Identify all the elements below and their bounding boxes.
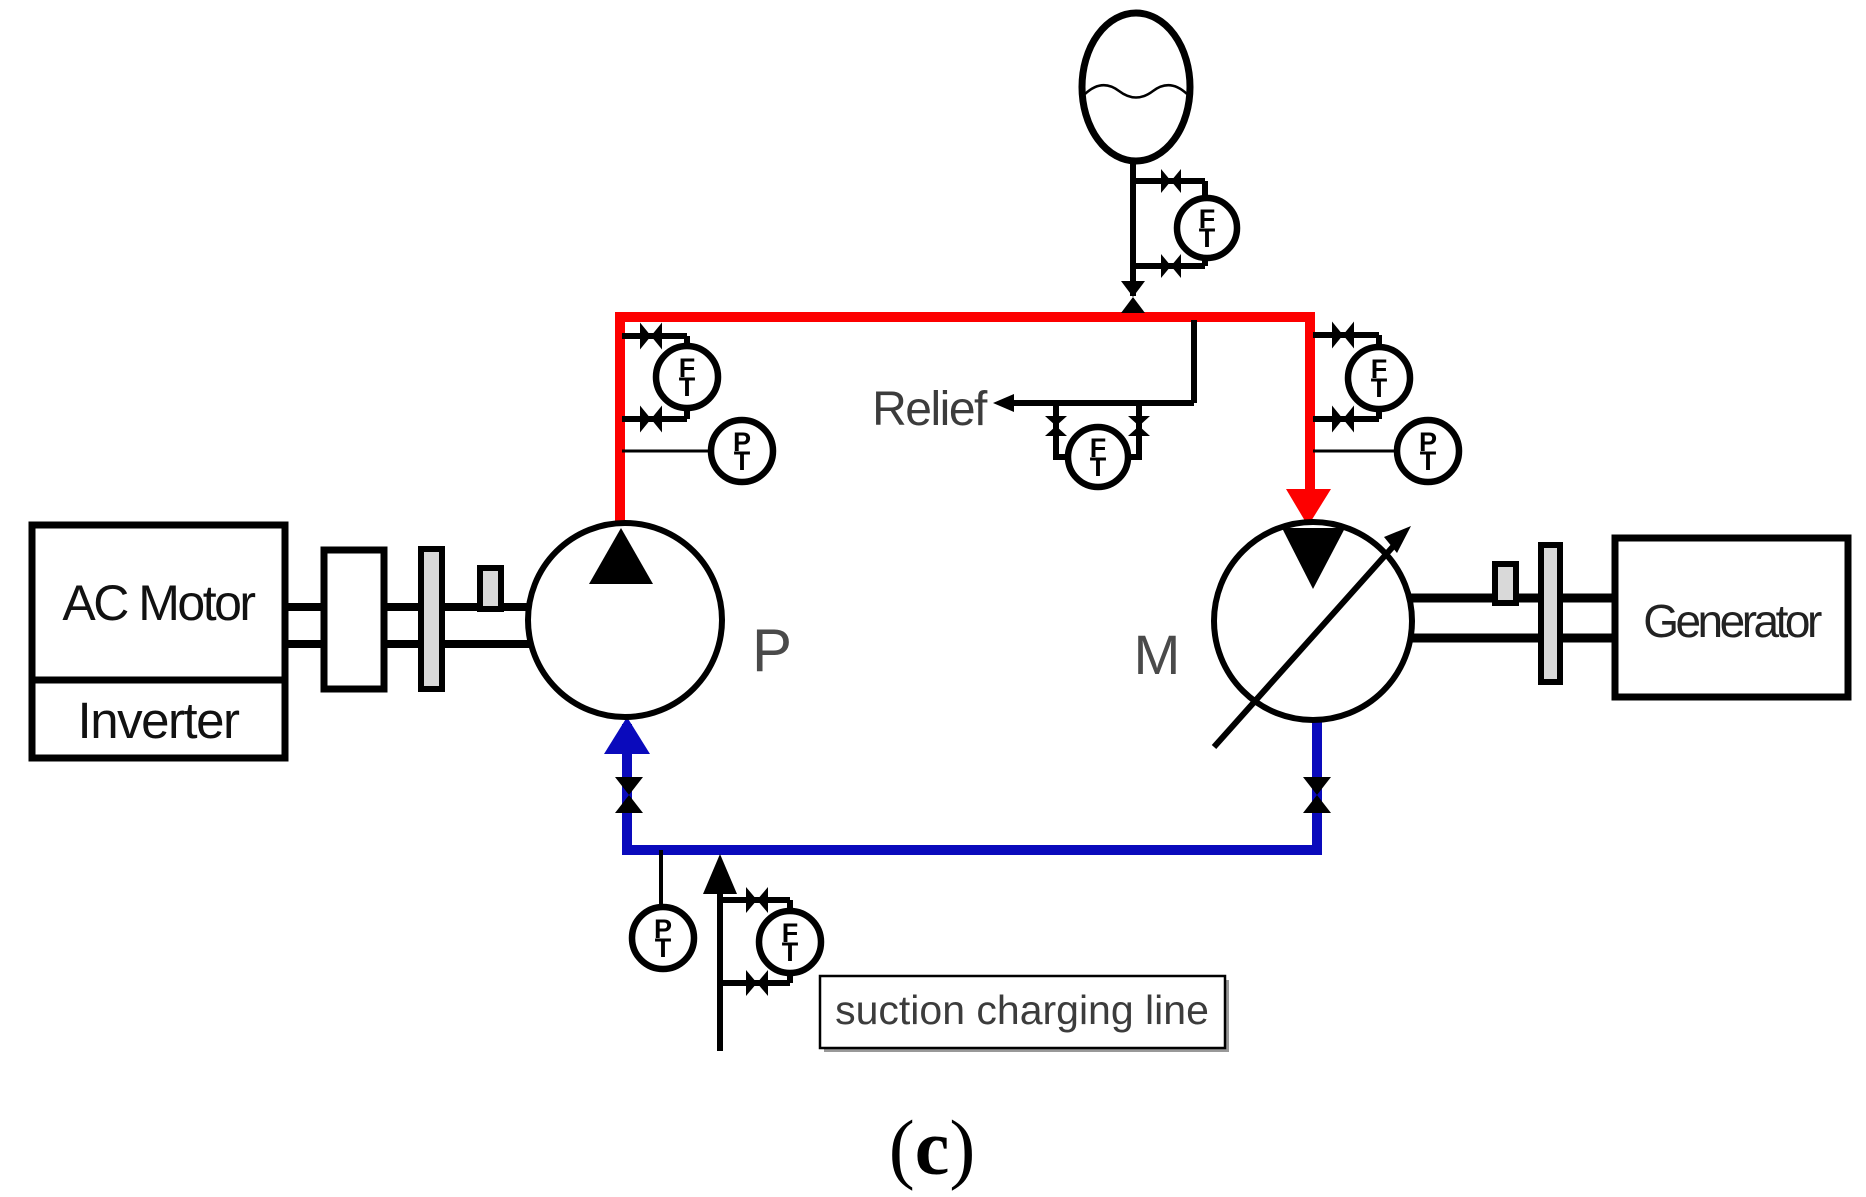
svg-text:AC Motor: AC Motor [62, 575, 255, 631]
valve on relief FT left drop [1045, 416, 1067, 426]
wire: suction FT bypass top stub [720, 897, 790, 903]
wire: low-pressure blue line loop [627, 716, 1317, 850]
svg-text:M: M [1134, 623, 1181, 686]
key block on generator shaft [1495, 564, 1516, 603]
svg-text:T: T [655, 933, 672, 963]
svg-text:T: T [1420, 446, 1437, 476]
wire: accumulator bypass elbow down [1202, 181, 1208, 200]
shaft: AC motor to pump [285, 603, 530, 611]
svg-text:T: T [679, 372, 696, 402]
wire: pump FT elbow down [684, 336, 690, 350]
wire: motor-side FT bypass top stub [1313, 332, 1379, 338]
svg-text:P: P [752, 617, 792, 684]
wire: suction PT tap drop [659, 850, 663, 908]
valve on pump FT bypass bottom [640, 406, 651, 433]
FT sensor at pump outlet [656, 346, 718, 408]
valve on accumulator bypass bottom [1161, 254, 1171, 278]
suction charging line label box shadow [824, 980, 1229, 1052]
FT sensor on suction line [759, 911, 821, 973]
pump P triangle (flow up) [589, 528, 653, 584]
FT sensor on relief line [1068, 427, 1128, 487]
PT sensor at pump outlet [711, 420, 773, 482]
suction charging line label box [820, 976, 1225, 1048]
svg-text:T: T [734, 446, 751, 476]
PT sensor at motor inlet [1397, 420, 1459, 482]
wire: relief branch drop from red line [1191, 320, 1197, 403]
valve on motor FT bypass top [1332, 322, 1343, 349]
valve on motor FT bypass bottom [1332, 406, 1343, 433]
valve on suction bypass top [746, 887, 757, 913]
valve on accumulator bypass top [1161, 169, 1171, 193]
wire: relief horizontal line [1008, 400, 1194, 406]
motor M circle [1214, 522, 1412, 720]
variable displacement diagonal arrow [1214, 541, 1398, 747]
svg-text:Generator: Generator [1643, 595, 1822, 647]
wire: high-pressure red line loop [620, 317, 1310, 529]
svg-text:Relief: Relief [872, 383, 988, 436]
FT sensor at accumulator [1177, 198, 1237, 258]
red flow arrowhead into motor M [1286, 489, 1331, 526]
AC Motor / Inverter box [32, 525, 285, 758]
valve on suction bypass bottom [746, 970, 757, 996]
svg-text:suction charging line: suction charging line [835, 987, 1209, 1033]
PT sensor on suction line [632, 907, 694, 969]
wire: suction FT elbow up [787, 971, 793, 983]
wire: suction FT elbow down [787, 900, 793, 914]
shutoff valve on blue line pump side [615, 777, 643, 795]
blue flow arrowhead into pump P [604, 717, 650, 754]
pump P circle [528, 523, 722, 717]
wire: accumulator stem [1130, 160, 1136, 296]
wire: motor FT elbow up [1376, 408, 1382, 419]
svg-text:Inverter: Inverter [78, 692, 240, 749]
svg-text:T: T [782, 937, 799, 967]
suction charging arrowhead (up into blue line) [703, 854, 737, 894]
relief arrowhead [993, 394, 1014, 412]
wire: motor PT tap line [1313, 450, 1397, 453]
wire: pump PT tap line [622, 450, 712, 453]
coupling box on pump shaft [324, 550, 384, 689]
wire: accumulator FT bypass bottom stub [1133, 263, 1205, 269]
svg-text:T: T [1090, 452, 1107, 482]
valve on relief FT right drop [1128, 416, 1150, 426]
accumulator [1082, 13, 1190, 161]
wire: pump-side FT bypass bottom stub [622, 416, 687, 422]
flange disc on pump shaft [421, 549, 442, 689]
wire: relief FT right drop [1128, 403, 1139, 457]
motor M triangle (flow down) [1282, 528, 1345, 589]
svg-text:(c): (c) [889, 1104, 976, 1191]
shaft: motor to generator [1410, 594, 1615, 603]
shutoff valve on accumulator stem [1121, 281, 1145, 297]
wire: suction FT bypass bottom stub [720, 980, 790, 986]
valve on pump FT bypass top [640, 323, 651, 350]
accumulator gas/fluid wave [1085, 85, 1187, 97]
FT sensor at motor inlet [1348, 347, 1410, 409]
wire: motor-side FT bypass bottom stub [1313, 416, 1379, 422]
svg-text:T: T [1199, 223, 1216, 253]
wire: motor FT elbow down [1376, 335, 1382, 350]
wire: relief FT left drop [1056, 403, 1068, 457]
key block on pump shaft [480, 568, 501, 609]
wire: accumulator bypass elbow up [1202, 256, 1208, 266]
wire: accumulator FT bypass top stub [1133, 178, 1205, 184]
shutoff valve on blue line motor side [1303, 777, 1331, 795]
wire: pump-side FT bypass top stub [622, 333, 687, 339]
Generator box [1615, 538, 1848, 697]
svg-text:T: T [1371, 373, 1388, 403]
wire: pump FT elbow up [684, 407, 690, 419]
wire: suction charging line vertical [717, 880, 723, 1051]
flange disc on generator shaft [1541, 545, 1560, 682]
